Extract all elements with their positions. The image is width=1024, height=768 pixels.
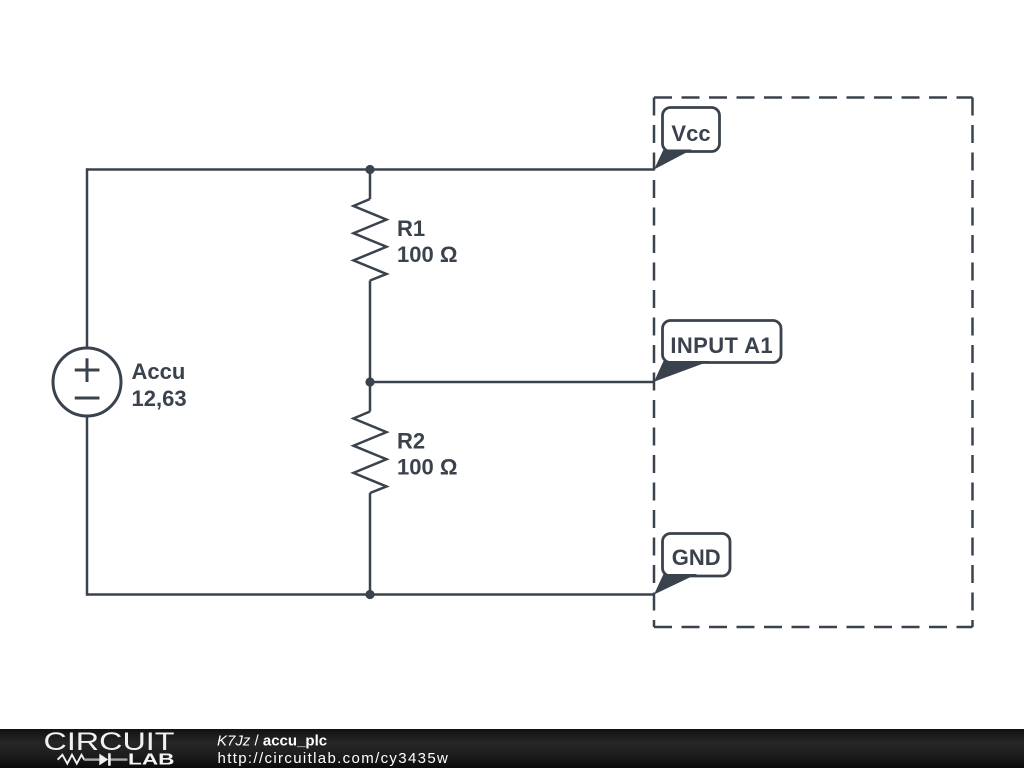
svg-text:R1: R1 (397, 216, 425, 241)
svg-text:12,63: 12,63 (132, 386, 187, 411)
svg-text:Vcc: Vcc (671, 121, 710, 146)
svg-text:LAB: LAB (128, 752, 175, 768)
svg-text:INPUT A1: INPUT A1 (670, 333, 773, 358)
svg-text:Accu: Accu (132, 359, 186, 384)
svg-text:GND: GND (672, 545, 721, 570)
svg-text:http://circuitlab.com/cy3435w: http://circuitlab.com/cy3435w (218, 750, 450, 767)
svg-text:100 Ω: 100 Ω (397, 455, 457, 480)
svg-text:100 Ω: 100 Ω (397, 242, 457, 267)
svg-text:R2: R2 (397, 429, 425, 454)
svg-text:K7Jz / accu_plc: K7Jz / accu_plc (217, 733, 327, 750)
